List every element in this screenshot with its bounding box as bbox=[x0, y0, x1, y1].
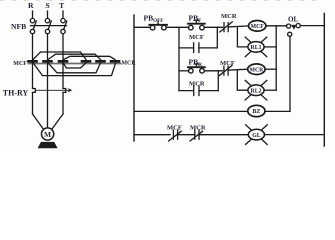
svg-text:R: R bbox=[28, 1, 34, 10]
wire rung1 from rail to PBoff bbox=[134, 26, 150, 28]
wire BZ rung from rail bbox=[134, 110, 248, 112]
wire link MCF pole 2 to MCR pole 2 bbox=[48, 63, 101, 73]
coil MCR bbox=[248, 64, 265, 75]
wire R TH-RY to motor bbox=[33, 92, 44, 128]
svg-text:MCR: MCR bbox=[221, 13, 237, 20]
svg-text:RL2: RL2 bbox=[251, 88, 262, 94]
lamp RL1 bbox=[245, 37, 267, 57]
control output bus bbox=[275, 26, 277, 90]
aux contact MCF a-contact (holding rung1) bbox=[179, 43, 217, 53]
control left rail bbox=[133, 15, 135, 141]
wire holding branch right drop rung2 bbox=[217, 71, 219, 91]
breaker NFB pole 3 bbox=[61, 18, 67, 33]
wire RL1 branch drop bbox=[237, 27, 248, 47]
svg-text:RL1: RL1 bbox=[251, 45, 262, 51]
contactor linkage bar (gray) bbox=[29, 63, 121, 65]
wire branch R to MCR pole 1 bbox=[33, 52, 86, 60]
buzzer BZ bbox=[248, 105, 265, 116]
contactor MCR main contact 2 bbox=[97, 60, 105, 63]
pushbutton PB OFF (NC) bbox=[149, 21, 167, 30]
lamp RL2 bbox=[245, 80, 267, 100]
svg-text:OL: OL bbox=[288, 16, 298, 24]
wire T NFB to MCF contact bbox=[62, 34, 64, 61]
wire T drop to NFB bbox=[62, 11, 64, 18]
wire branch S to MCR pole 2 bbox=[48, 54, 100, 59]
wire holding branch left drop (shared) bbox=[178, 27, 180, 90]
svg-text:MCF: MCF bbox=[220, 60, 235, 67]
svg-text:MCR: MCR bbox=[249, 67, 264, 73]
wire link MCF pole 3 to MCR pole 1 bbox=[63, 63, 86, 68]
pushbutton PB R (NO) bbox=[188, 64, 205, 73]
wire PBr to MCF contact bbox=[204, 70, 222, 72]
scan artifact top border bbox=[0, 0, 320, 2]
svg-text:GL: GL bbox=[252, 133, 261, 139]
wire R drop to NFB bbox=[32, 11, 34, 18]
svg-text:MCF: MCF bbox=[13, 61, 27, 67]
wire rung2 from shared drop bbox=[179, 70, 189, 72]
coil MCF bbox=[249, 21, 266, 32]
svg-text:MCF: MCF bbox=[251, 24, 265, 30]
contactor MCF main contact 1 bbox=[29, 60, 37, 63]
breaker NFB trip bar bbox=[31, 25, 67, 27]
svg-text:TH-RY: TH-RY bbox=[3, 88, 29, 97]
wire PBoff to PBf bbox=[166, 26, 189, 28]
aux contact MCR a-contact (holding rung2) bbox=[179, 86, 218, 96]
wire holding branch right drop rung1 bbox=[216, 27, 218, 48]
wire RL1 to bus bbox=[264, 46, 276, 48]
wire PBf to MCR contact bbox=[204, 26, 222, 28]
wire T TH-RY to motor bbox=[52, 92, 63, 128]
wire MCR contact to GL bbox=[199, 134, 249, 136]
wire RL2 branch drop bbox=[237, 71, 248, 90]
svg-text:BZ: BZ bbox=[252, 109, 260, 115]
wire MCR contact to MCF coil bbox=[228, 26, 248, 27]
wire OL NO drop to BZ bbox=[289, 36, 291, 111]
svg-text:MCF: MCF bbox=[189, 34, 204, 41]
breaker NFB pole 2 bbox=[45, 18, 51, 33]
svg-text:NFB: NFB bbox=[11, 22, 26, 31]
wire R contact to TH-RY bbox=[32, 63, 34, 89]
wire RL2 to bus bbox=[264, 89, 276, 91]
contactor MCF main contact 2 bbox=[44, 60, 52, 63]
motor base pedestal bbox=[38, 142, 58, 148]
wire S NFB to MCF contact bbox=[47, 34, 49, 61]
wire link MCF pole 1 to MCR pole 3 bbox=[33, 63, 116, 76]
svg-text:PBF: PBF bbox=[189, 14, 203, 25]
thermal relay heater element phase T bbox=[63, 89, 66, 93]
svg-text:T: T bbox=[59, 1, 64, 10]
thermal relay heater element phase R bbox=[33, 89, 36, 93]
svg-text:M: M bbox=[44, 130, 51, 139]
wire BZ to OL drop bbox=[265, 110, 290, 112]
wire MCF coil to OL bbox=[266, 25, 287, 27]
contactor MCF main contact 3 bbox=[59, 60, 67, 63]
contactor MCR main contact 1 bbox=[82, 60, 90, 63]
aux contact MCR b-contact (rung1) bbox=[220, 22, 233, 32]
wire GL to right rail bbox=[264, 134, 324, 136]
wire S drop to NFB bbox=[47, 11, 49, 18]
wire R NFB to MCF contact bbox=[32, 34, 34, 61]
lamp GL bbox=[246, 125, 268, 145]
control right rail bbox=[323, 14, 325, 147]
aux contact MCF b-contact (rung2) bbox=[220, 65, 233, 75]
aux contact MCF b-contact (GL rung) bbox=[169, 130, 182, 141]
aux contact MCR b-contact (GL rung) bbox=[190, 130, 203, 141]
wire MCR coil to bus bbox=[265, 68, 276, 70]
svg-text:S: S bbox=[45, 1, 49, 10]
wire S contact down bbox=[47, 63, 49, 129]
wire GL rung from rail bbox=[134, 134, 170, 136]
breaker NFB pole 1 bbox=[30, 18, 36, 33]
wire MCF contact to MCR coil bbox=[228, 69, 248, 70]
wire T contact to TH-RY bbox=[62, 63, 64, 89]
wire branch T to MCR pole 3 bbox=[64, 56, 115, 59]
wire between GL contacts bbox=[178, 134, 195, 136]
contactor MCR main contact 3 bbox=[111, 60, 119, 63]
overload contact OL bbox=[287, 24, 301, 37]
svg-text:MCF: MCF bbox=[167, 125, 182, 132]
wire OL to right rail bbox=[300, 25, 324, 27]
thermal relay trip linkage bbox=[35, 89, 71, 92]
motor M bbox=[42, 128, 54, 140]
svg-text:PBOFF: PBOFF bbox=[144, 14, 164, 25]
svg-text:MCR: MCR bbox=[190, 125, 206, 132]
svg-text:MCR: MCR bbox=[189, 81, 205, 88]
pushbutton PB F (NO) bbox=[188, 20, 205, 30]
